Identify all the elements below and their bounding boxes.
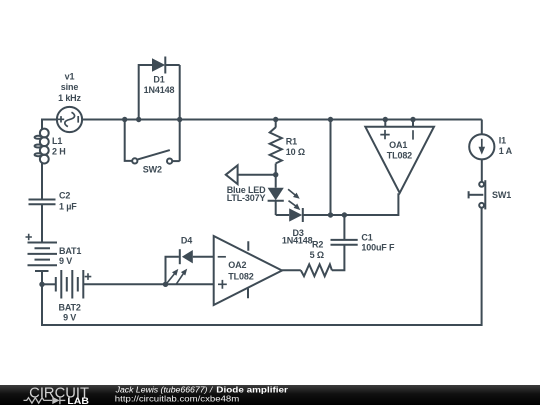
svg-text:R1: R1 — [286, 137, 297, 147]
svg-text:LAB: LAB — [67, 396, 89, 405]
wire output rail — [303, 193, 399, 215]
svg-text:1 µF: 1 µF — [59, 201, 77, 211]
svg-text:C2: C2 — [59, 191, 70, 201]
svg-text:TL082: TL082 — [228, 271, 253, 281]
wire top main rail — [83, 119, 482, 121]
battery BAT1 — [26, 234, 58, 284]
svg-text:D1: D1 — [153, 74, 164, 84]
svg-text:1 A: 1 A — [499, 146, 513, 156]
svg-text:SW1: SW1 — [492, 190, 511, 200]
wire L1 to C2 — [41, 163, 43, 200]
node junction rail/C1 — [342, 212, 347, 217]
inductor L1 — [35, 129, 49, 164]
label v1 — [58, 72, 81, 103]
wire R2 to C1 — [332, 245, 345, 270]
resistor R1 — [270, 120, 282, 175]
label L1 — [52, 136, 66, 156]
label D3 — [282, 228, 313, 245]
svg-text:1 kHz: 1 kHz — [58, 93, 81, 103]
capacitor C2 — [29, 200, 56, 205]
svg-text:10 Ω: 10 Ω — [286, 147, 305, 157]
svg-text:1N4148: 1N4148 — [282, 236, 313, 246]
svg-text:I1: I1 — [499, 135, 506, 145]
op-amp OA1 — [365, 120, 434, 194]
label Blue LED — [227, 185, 266, 203]
wire v1 left to L1 — [42, 120, 57, 130]
label R1 — [286, 137, 305, 158]
label C2 — [59, 191, 77, 212]
svg-text:OA2: OA2 — [228, 260, 246, 270]
LED blue LTL-307Y — [268, 175, 301, 215]
svg-text:BAT2: BAT2 — [58, 302, 80, 312]
diode D4 (LED) — [166, 249, 214, 284]
capacitor C1 — [331, 215, 358, 245]
junction dots on main rail — [122, 117, 127, 122]
diode D1 — [139, 57, 180, 120]
switch SW2 — [125, 120, 180, 164]
svg-text:v1: v1 — [65, 72, 75, 82]
svg-text:100uF F: 100uF F — [361, 242, 395, 252]
wire OA2 output — [282, 269, 301, 271]
battery BAT2 — [42, 270, 91, 299]
node junction D4 branch — [163, 282, 168, 287]
wire C2 to BAT1 — [41, 205, 43, 243]
label BAT2 — [58, 302, 80, 322]
node junction R1 bottom / LED — [273, 172, 278, 177]
annotation arrow to LED node — [226, 165, 276, 184]
footer logo resistor-diode glyph — [24, 397, 66, 405]
svg-text:1N4148: 1N4148 — [144, 85, 175, 95]
voltage source v1 — [57, 107, 82, 132]
label R2 — [310, 240, 324, 260]
svg-text:9 V: 9 V — [63, 313, 76, 323]
label OA1 — [387, 140, 412, 160]
label C1 — [361, 233, 395, 253]
svg-text:L1: L1 — [52, 136, 62, 146]
node junction rail/main vertical — [328, 212, 333, 217]
svg-text:5 Ω: 5 Ω — [310, 250, 324, 260]
wire D1 right / SW2 right shared vertical — [179, 65, 181, 161]
resistor R2 — [301, 264, 332, 276]
footer bar — [0, 385, 540, 405]
node junction at BAT1/BAT2/ground — [39, 282, 44, 287]
svg-text:9 V: 9 V — [59, 256, 72, 266]
svg-text:TL082: TL082 — [387, 150, 412, 160]
svg-text:R2: R2 — [312, 240, 323, 250]
label D1 — [144, 74, 175, 95]
wire main to rail vertical — [330, 120, 332, 216]
switch SW1 pushbutton — [469, 180, 486, 209]
svg-text:D4: D4 — [181, 236, 192, 246]
svg-text:BAT1: BAT1 — [59, 246, 81, 256]
op-amp OA2 — [214, 236, 282, 305]
svg-text:2 H: 2 H — [52, 146, 66, 156]
svg-text:http://circuitlab.com/cxbe48m: http://circuitlab.com/cxbe48m — [115, 393, 240, 403]
label BAT1 — [59, 246, 81, 266]
svg-text:LTL-307Y: LTL-307Y — [227, 193, 266, 203]
wire ground loop bottom — [42, 208, 482, 325]
svg-text:sine: sine — [61, 82, 79, 92]
current source I1 — [469, 120, 494, 183]
diode D3 — [276, 208, 303, 222]
node junction R1 top — [273, 117, 278, 122]
svg-text:C1: C1 — [361, 233, 372, 243]
wire BAT2 to OA2 + input — [83, 283, 213, 285]
label I1 — [499, 135, 513, 156]
svg-text:OA1: OA1 — [389, 140, 407, 150]
svg-text:SW2: SW2 — [143, 164, 162, 174]
label OA2 — [228, 260, 253, 281]
